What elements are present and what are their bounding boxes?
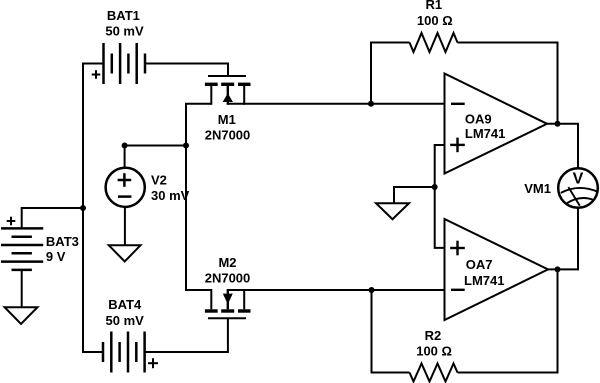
- svg-text:BAT3: BAT3: [46, 234, 79, 249]
- node OA7 output: [555, 266, 561, 272]
- wire BAT3 branch: [22, 208, 83, 228]
- op-amp OA7: [445, 219, 549, 320]
- wire R1 right lead: [458, 43, 558, 124]
- svg-text:100 Ω: 100 Ω: [416, 343, 452, 358]
- wire OA9 + input chain to OA7 + input: [435, 145, 445, 248]
- resistor R1 100ohm: [410, 33, 458, 52]
- node mid vertical / V2: [183, 143, 189, 149]
- wire BAT1 right lead to M1 gate: [145, 64, 228, 77]
- OA7 minus mark: [451, 289, 465, 291]
- svg-text:50 mV: 50 mV: [106, 313, 145, 328]
- svg-text:2N7000: 2N7000: [205, 271, 251, 286]
- VM1 meter lower arc: [566, 198, 595, 204]
- transistor M2 2N7000: [205, 289, 251, 318]
- wire R2 left lead: [372, 290, 410, 373]
- svg-text:V2: V2: [151, 173, 167, 188]
- OA9 minus mark: [451, 103, 465, 105]
- svg-text:50 mV: 50 mV: [105, 23, 144, 38]
- wire OA9 output to VM1: [547, 124, 578, 168]
- svg-text:M2: M2: [218, 255, 236, 270]
- BAT4 plus sign: [148, 358, 158, 368]
- node R2 / OA7 inverting input: [369, 287, 375, 293]
- node junction dots: [80, 101, 561, 293]
- BAT1 plus sign: [92, 70, 101, 79]
- node OA9 output: [555, 121, 561, 127]
- wire M1 left terminal to mid vertical: [186, 104, 211, 290]
- wire left vertical rail: [83, 64, 104, 353]
- resistor R2 100ohm: [410, 364, 458, 382]
- battery BAT3: [1, 228, 43, 270]
- svg-text:9 V: 9 V: [46, 249, 66, 264]
- voltmeter VM1: [558, 168, 598, 208]
- svg-text:LM741: LM741: [464, 273, 504, 288]
- ground at op-amp non-inverting inputs: [376, 203, 409, 219]
- svg-text:VM1: VM1: [524, 181, 551, 196]
- node left rail / BAT3: [80, 205, 86, 211]
- VM1 needle: [568, 187, 579, 206]
- wire OA7 output to VM1: [548, 208, 578, 270]
- OA9 plus mark: [450, 138, 465, 153]
- svg-text:V: V: [573, 170, 584, 187]
- wire R2 right lead: [458, 269, 558, 372]
- svg-text:BAT1: BAT1: [107, 8, 140, 23]
- OA7 plus mark: [450, 241, 465, 256]
- ground below V2: [109, 245, 141, 261]
- svg-text:BAT4: BAT4: [108, 297, 142, 312]
- svg-text:OA7: OA7: [466, 257, 493, 272]
- wire V2 top: [125, 146, 186, 169]
- svg-text:R2: R2: [425, 328, 442, 343]
- V2 plus sign: [118, 173, 132, 187]
- wire ground branch at op-amp inputs: [394, 187, 435, 203]
- ground below BAT3: [5, 307, 38, 324]
- svg-text:M1: M1: [218, 112, 236, 127]
- wire M2 right terminal to OA7 inverting input: [228, 289, 445, 291]
- V2 minus sign: [118, 195, 131, 198]
- wire M1 right terminal to OA9 inverting input: [228, 103, 445, 105]
- node R1 / OA9 inverting input: [368, 101, 374, 107]
- wire R1 left lead: [371, 43, 410, 104]
- svg-text:2N7000: 2N7000: [205, 128, 251, 143]
- battery BAT4: [103, 332, 145, 373]
- svg-text:OA9: OA9: [465, 111, 492, 126]
- svg-text:R1: R1: [425, 0, 442, 12]
- svg-text:30 mV: 30 mV: [151, 188, 190, 203]
- wire BAT3 bottom to ground: [21, 270, 23, 307]
- VM1 meter upper arc: [561, 188, 598, 193]
- transistor M1 2N7000: [205, 76, 251, 105]
- wire V2 bottom to ground: [124, 207, 126, 245]
- svg-text:LM741: LM741: [465, 126, 505, 141]
- M2 body arrow (down): [224, 295, 231, 302]
- voltage source V2: [106, 168, 145, 207]
- node ground / op-amp + inputs: [432, 184, 438, 190]
- wire M2 right terminal bar: [228, 289, 244, 291]
- op-amp OA9: [445, 74, 548, 174]
- M1 body arrow (up): [224, 95, 231, 101]
- svg-text:100 Ω: 100 Ω: [417, 13, 453, 28]
- battery BAT1: [104, 43, 146, 84]
- node V2 top: [122, 143, 128, 149]
- wire BAT4 right lead to M2 gate: [145, 318, 228, 352]
- BAT3 plus sign: [7, 217, 16, 226]
